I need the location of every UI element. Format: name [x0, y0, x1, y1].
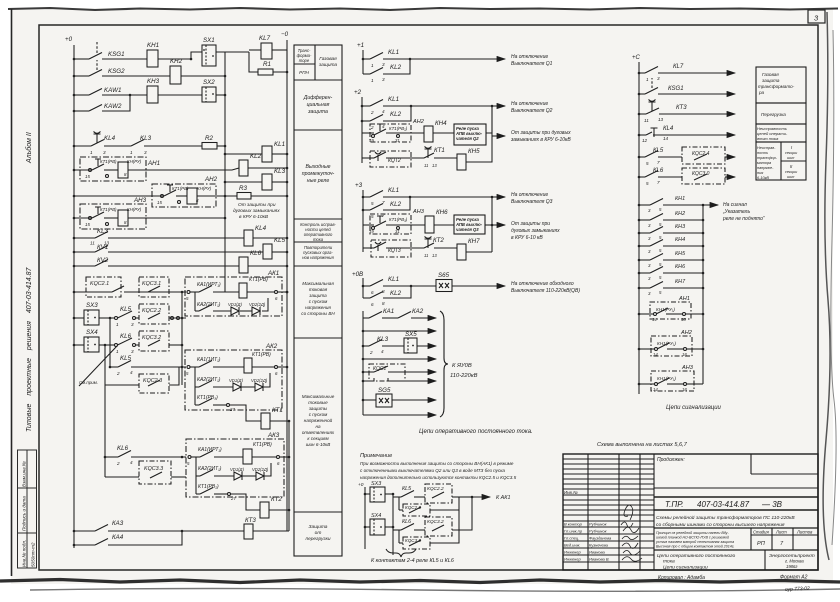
wire KT3 row [639, 113, 646, 115]
relay coil KH5 [457, 154, 466, 170]
svg-text:Альбом II: Альбом II [25, 132, 33, 164]
junction [129, 94, 132, 97]
svg-text:3: 3 [131, 322, 134, 327]
wire KL1 row1 [363, 58, 370, 60]
svg-text:S65: S65 [438, 272, 450, 279]
relay coil KL6 [239, 257, 248, 273]
test block SX4 [84, 337, 99, 352]
svg-text:РПН: РПН [299, 70, 309, 75]
svg-text:KQC3.2: KQC3.2 [142, 335, 161, 341]
contact KH2 [650, 214, 663, 221]
svg-text:КТ1(РВ): КТ1(РВ) [100, 207, 117, 212]
block AN2 dash-dot [152, 184, 216, 207]
coil KN(PU) in AN1 [118, 162, 128, 178]
svg-text:KL2: KL2 [390, 111, 402, 118]
relay coil KT3 [244, 524, 253, 539]
svg-text:1: 1 [646, 77, 649, 82]
contact KL2 5-7 [370, 204, 383, 211]
svg-text:KL2: KL2 [390, 201, 402, 208]
svg-text:KQC2.2: KQC2.2 [142, 308, 161, 314]
svg-text:На отключение обходного: На отключение обходного [511, 281, 574, 287]
svg-text:SХ5: SХ5 [405, 331, 417, 338]
AK2 row2 wire [195, 386, 199, 388]
svg-text:нов напряжения: нов напряжения [302, 255, 334, 260]
AK1 row2 wire [195, 310, 199, 312]
svg-text:Взам.инв.№: Взам.инв.№ [22, 461, 27, 487]
test block SX3 [84, 310, 99, 325]
circles out row318 [171, 317, 174, 320]
left table verticals [587, 454, 589, 570]
contact KT3 t [649, 100, 656, 112]
svg-text:от: от [315, 531, 322, 536]
contact KL2 1-3 [370, 68, 383, 75]
wire KT1 to KH5 [434, 158, 457, 162]
scan bottom edge [0, 580, 840, 583]
contact KQC3.2 [148, 340, 160, 346]
svg-text:Дифферен-: Дифферен- [303, 95, 333, 101]
svg-text:устыв назовем матрой селект: устыв назовем матрой селективная защита [655, 540, 734, 544]
svg-text:См.прим.: См.прим. [79, 380, 98, 385]
wire KT2 to KH7 [434, 248, 457, 252]
svg-text:KH3: KH3 [147, 78, 160, 85]
AK3 contact KA1(IRT1) [188, 456, 191, 459]
wire KL2 row3 [363, 209, 370, 211]
contact KSG2 [89, 70, 102, 77]
contact KT(PB2) in AN2 [161, 195, 164, 198]
svg-text:4: 4 [381, 349, 384, 354]
svg-text:+2: +2 [354, 89, 362, 96]
svg-text:КА1: КА1 [383, 308, 394, 315]
block KQT2 dash-dot [370, 151, 411, 167]
svg-text:КТ2: КТ2 [433, 237, 444, 244]
coil KN(PU) in AN3 [118, 210, 128, 226]
svg-text:SX4: SX4 [86, 329, 98, 336]
wire SX4 note [365, 526, 370, 528]
svg-text:KSG2: KSG2 [108, 68, 125, 75]
wire KT3 out [253, 530, 289, 532]
svg-text:КL5: КL5 [653, 148, 664, 154]
svg-text:11: 11 [644, 118, 649, 123]
svg-text:с пуском: с пуском [309, 412, 328, 417]
svg-text:КН5: КН5 [468, 148, 480, 155]
svg-text:шин 6-10кВ: шин 6-10кВ [306, 442, 331, 447]
svg-text:KL2: KL2 [250, 153, 262, 160]
AK2 row1 wire [190, 366, 199, 368]
wire KL3 coil [225, 181, 262, 183]
wire row AN2 [74, 195, 164, 197]
caption box mtz1 [294, 337, 342, 339]
svg-text:18: 18 [681, 317, 686, 322]
svg-text:SX3: SX3 [86, 302, 98, 309]
svg-text:реле не поднято“: реле не поднято“ [722, 216, 765, 222]
contact KT(PB) in AN3 [89, 217, 92, 220]
contact KQC2.1 [112, 286, 124, 292]
svg-text:КТ1(РВ): КТ1(РВ) [100, 159, 117, 164]
svg-text:3: 3 [382, 77, 385, 82]
wire KH4 row [639, 245, 650, 247]
svg-text:АН2: АН2 [412, 119, 425, 125]
caption box fault op [756, 124, 806, 142]
wire row KQC3.3 [105, 476, 139, 478]
svg-text:с отключенными выключателями: с отключенными выключателями Q2 или Q3 в… [360, 468, 505, 473]
svg-text:12: 12 [642, 138, 648, 143]
svg-text:РП: РП [757, 541, 766, 547]
svg-text:КQС3.2: КQС3.2 [427, 519, 444, 525]
wire KQC3.0 out [725, 176, 735, 178]
brace bottom contacts [386, 549, 416, 557]
svg-text:КН6: КН6 [436, 209, 448, 216]
svg-text:2: 2 [369, 350, 373, 355]
diode VD1 [234, 472, 242, 480]
caption box repeaters [294, 265, 342, 267]
svg-text:КТ1(РВ): КТ1(РВ) [172, 186, 189, 191]
svg-text:Формат А2: Формат А2 [780, 575, 808, 581]
svg-text:КА2: КА2 [412, 308, 424, 315]
svg-text:со стороны ВН: со стороны ВН [301, 311, 335, 316]
wire S65 out arrow [452, 285, 505, 287]
vertical collector wire [224, 52, 226, 292]
contact KH3 [650, 227, 663, 234]
svg-text:На сигнал: На сигнал [723, 202, 747, 208]
note arrow see note [79, 346, 117, 386]
svg-text:дуговых замыканиях: дуговых замыканиях [511, 228, 560, 234]
contact KQC3.3 [150, 472, 162, 478]
svg-text:7: 7 [382, 213, 385, 218]
contact KT1(PB3) [372, 227, 375, 230]
svg-text:АН3: АН3 [681, 365, 694, 371]
svg-text:14: 14 [663, 136, 669, 141]
svg-text:Защита: Защита [309, 524, 328, 530]
node -0 bus [286, 40, 288, 531]
wire to KT1 coil [230, 405, 262, 421]
svg-text:Копировал : Адамба: Копировал : Адамба [658, 575, 705, 581]
wire KH5 out [466, 160, 492, 162]
caption box VT fault [756, 142, 806, 180]
svg-text:В контор: В контор [564, 522, 583, 527]
svg-text:407-03-414.87: 407-03-414.87 [697, 500, 750, 509]
test block SX2 [202, 87, 216, 102]
wire KH3 row [639, 232, 650, 234]
svg-text:5: 5 [646, 161, 649, 166]
svg-text:Цепи сигнализации: Цепи сигнализации [666, 405, 722, 411]
svg-text:18: 18 [682, 352, 687, 357]
svg-text:13: 13 [658, 117, 664, 122]
contact KT(PB1) in AN1 [89, 169, 92, 172]
svg-text:КН2: КН2 [675, 211, 685, 217]
svg-text:Высочая про с общим компактом: Высочая про с общим компактом этой 2014г… [656, 545, 735, 549]
svg-text:Выключателя 110-220кВ(QВ): Выключателя 110-220кВ(QВ) [511, 288, 580, 294]
svg-text:Лист: Лист [775, 530, 787, 535]
svg-text:KH1: KH1 [147, 42, 159, 49]
block AN3 sig dash-dot [651, 371, 694, 391]
svg-text:13: 13 [432, 163, 437, 168]
svg-text:SX2: SX2 [203, 79, 215, 86]
wire KL1 row2 [362, 105, 370, 107]
block KQT3 dash-dot [371, 240, 411, 257]
svg-text:Максимальная: Максимальная [302, 281, 334, 286]
contact KSG1 [89, 53, 102, 60]
AK3 row3 contact KT1(PB2) [196, 493, 200, 495]
diode VD1 [231, 307, 239, 315]
svg-text:VD1(Д): VD1(Д) [228, 302, 242, 307]
svg-text:Инв.№: Инв.№ [564, 490, 578, 495]
svg-text:Газовая: Газовая [762, 72, 779, 77]
svg-text:3: 3 [144, 150, 147, 155]
wire row KA4 [74, 544, 95, 546]
fuse S65 [436, 280, 452, 292]
svg-text:KL1: KL1 [388, 49, 399, 56]
contact KV1 [95, 246, 108, 253]
contact KQC2.2 [148, 313, 160, 319]
resistor R3 [237, 193, 251, 200]
wire row KQC2.3 [105, 384, 139, 386]
svg-text:АН2: АН2 [204, 176, 218, 183]
svg-text:с пуском: с пуском [309, 299, 328, 304]
svg-text:в КРУ 6-10кВ: в КРУ 6-10кВ [239, 214, 269, 220]
wire AN1 sig row [639, 313, 653, 315]
svg-text:3: 3 [657, 76, 660, 81]
svg-text:Стадия: Стадия [753, 530, 769, 535]
svg-text:ные реле: ные реле [307, 178, 330, 184]
svg-text:На отключение: На отключение [511, 54, 548, 60]
block KQC2.3 dash-dot [139, 374, 169, 393]
svg-text:8: 8 [382, 289, 385, 294]
svg-text:KH2: KH2 [170, 58, 183, 65]
svg-text:КТ1(РВ): КТ1(РВ) [253, 442, 272, 448]
svg-text:шевой планкой НО-ВСПО-ПУВ с: шевой планкой НО-ВСПО-ПУВ с решаемой [656, 536, 729, 540]
svg-text:матора: матора [757, 161, 771, 165]
wire row KL4/KL3 [74, 145, 91, 147]
svg-text:1: 1 [371, 63, 374, 68]
contact KQC3.0 [694, 174, 707, 180]
svg-text:КТ1(РВ₂): КТ1(РВ₂) [389, 126, 408, 131]
relay coil KL2 out [239, 160, 248, 176]
svg-text:R3: R3 [239, 185, 247, 192]
svg-text:тока: тока [313, 237, 324, 242]
svg-text:защита: защита [318, 63, 338, 68]
svg-text:КQС3.5: КQС3.5 [405, 538, 421, 543]
vertical junction x110 [109, 318, 111, 367]
svg-text:KL6: KL6 [117, 445, 129, 452]
svg-text:7: 7 [382, 200, 385, 205]
wire KL1 row3 [363, 196, 370, 198]
svg-text:КН(РУ): КН(РУ) [197, 186, 212, 191]
block KQC3.3 dash-dot [139, 461, 171, 484]
contact KL5 1-3 [115, 317, 118, 320]
wire KL7 row [639, 72, 645, 74]
svg-text:токовая: токовая [309, 287, 328, 292]
relay coil KH4 [424, 126, 433, 142]
contact KL5 sig [645, 151, 658, 158]
diode VD2 [252, 307, 260, 315]
svg-text:вного тока: вного тока [757, 136, 779, 141]
wire KQT3 row [363, 247, 374, 249]
wire row KQC2.1 [74, 291, 112, 293]
svg-text:Рубчинок: Рубчинок [589, 529, 608, 534]
block KQC3.2 dash-dot [139, 331, 169, 351]
svg-text:защита: защита [308, 293, 327, 298]
svg-text:КТ1: КТ1 [434, 147, 445, 154]
svg-text:5: 5 [371, 214, 374, 219]
svg-text:4: 4 [130, 370, 133, 375]
wire row SX3/KL5 [74, 317, 84, 319]
svg-text:КН6: КН6 [675, 264, 685, 270]
svg-text:АН3: АН3 [133, 197, 147, 204]
contact KL6 1-3 [115, 344, 118, 347]
node +2 bus [361, 97, 363, 163]
svg-text:КQС2.5: КQС2.5 [405, 505, 421, 510]
AK3 row1 wire [191, 456, 200, 458]
svg-text:К ЯУ0В: К ЯУ0В [452, 363, 472, 369]
AK2 coil KT1(PB) [244, 358, 252, 373]
svg-text:VD2(2Д): VD2(2Д) [251, 378, 268, 383]
svg-text:KL5: KL5 [274, 237, 286, 244]
wire KH6 to APV box [434, 224, 454, 226]
svg-text:KL4: KL4 [255, 225, 267, 232]
block AN3 dash-dot [80, 204, 146, 229]
wire row KA3 [74, 530, 95, 532]
svg-text:КQС2.2: КQС2.2 [427, 486, 444, 492]
relay coil KH7 [457, 244, 466, 260]
svg-text:Выключателя Q2: Выключателя Q2 [511, 108, 553, 114]
svg-text:SХ3: SХ3 [371, 481, 381, 487]
left table rows upper [563, 458, 654, 460]
node +C bus [638, 62, 640, 394]
svg-text:−0: −0 [281, 31, 289, 38]
relay coil KH1 [147, 50, 158, 67]
signature scribbles [621, 505, 642, 561]
wire KH2 row [639, 219, 650, 221]
diode VD2 [256, 472, 264, 480]
svg-text:Перегрузка: Перегрузка [761, 112, 786, 117]
svg-text:КТ1(РВ₂): КТ1(РВ₂) [198, 484, 219, 490]
svg-text:КТ3: КТ3 [245, 517, 256, 524]
svg-text:КН(РУ): КН(РУ) [127, 207, 142, 212]
LEFT MARGIN STRIP [18, 450, 37, 568]
svg-text:15: 15 [157, 200, 162, 205]
wire KH7 out [466, 251, 492, 253]
block AN2 dash-dot mid [370, 124, 411, 142]
contact KH7 [650, 282, 663, 289]
wire KL2 row 6-8 [363, 297, 370, 299]
caption box overload [756, 103, 806, 124]
contact KL1 5-7 [370, 191, 383, 198]
svg-text:7: 7 [657, 180, 660, 185]
wire row SX4/KL6 [74, 344, 84, 346]
caption column frame [294, 45, 342, 556]
relay coil KL1 out [262, 146, 272, 162]
svg-text:+С: +С [632, 55, 641, 61]
svg-text:перегрузки: перегрузки [305, 537, 330, 542]
svg-text:КН7: КН7 [675, 279, 686, 285]
svg-text:На отключение: На отключение [511, 101, 548, 107]
right rail signal [702, 205, 704, 384]
AK1 coil KT1(PB) [239, 283, 247, 298]
svg-text:К контактам 2-4 реле КL5 и КL6: К контактам 2-4 реле КL5 и КL6 [371, 558, 454, 564]
svg-text:KAW1: KAW1 [104, 87, 121, 94]
svg-text:Иванова: Иванова [589, 550, 606, 555]
wire KL2 row2 [362, 120, 370, 122]
svg-text:SX1: SX1 [203, 37, 215, 44]
wire SX2 out [216, 94, 225, 96]
svg-text:Примечание: Примечание [360, 453, 392, 459]
block AK1 dash-dot [185, 277, 282, 316]
test block SX5 [404, 338, 417, 353]
wire APV3 out [485, 224, 492, 226]
svg-text:КТ2: КТ2 [271, 496, 282, 503]
svg-text:Продолжен:: Продолжен: [657, 457, 685, 463]
vertical rail note [392, 494, 394, 555]
relay coil KT1 [261, 413, 270, 429]
svg-text:1: 1 [130, 150, 133, 155]
svg-text:дуговых замыканиях: дуговых замыканиях [233, 208, 280, 214]
contact KT1(PB2) [372, 135, 375, 138]
parallel branch KL7/R1 [249, 52, 258, 72]
svg-text:5050пт-т2: 5050пт-т2 [31, 542, 36, 567]
wire KQC2.5 out [430, 497, 459, 510]
caption box mtz2 [294, 511, 342, 513]
sheet number box 3 [808, 10, 825, 23]
svg-text:КV2: КV2 [97, 257, 109, 264]
contact KL3 [95, 232, 108, 239]
contact KL6 sig [645, 171, 658, 178]
box rele puska APV Q3 [454, 215, 485, 234]
block AK2 dash-dot [185, 350, 282, 410]
contact KSG1 sig [645, 88, 658, 95]
contact KT1 t [425, 147, 432, 159]
svg-text:6: 6 [371, 290, 374, 295]
svg-text:торе: торе [299, 58, 310, 63]
svg-text:KL3: KL3 [274, 168, 286, 175]
AK1 contact KA2(2IT1) [199, 305, 212, 312]
svg-text:КL5: КL5 [402, 486, 412, 492]
wire KL4 row [639, 134, 646, 136]
contact KH4 [650, 240, 663, 247]
svg-text:КV1: КV1 [97, 244, 108, 251]
svg-text:KQC2.3: KQC2.3 [143, 378, 162, 384]
contact KQT2 lamp [375, 152, 381, 161]
svg-text:АК2: АК2 [265, 343, 278, 350]
left rail for arrow rows [362, 311, 364, 415]
contact KL6 2-4 [118, 451, 131, 458]
svg-text:При возможности выполнения: При возможности выполнения защиты со сто… [360, 461, 514, 466]
svg-text:На отключение: На отключение [511, 192, 548, 198]
wire row KSG2 [74, 75, 89, 77]
block AN1 dash-dot [80, 157, 146, 181]
svg-text:трансфор-: трансфор- [757, 156, 778, 160]
svg-text:Инв.№ подл.: Инв.№ подл. [22, 540, 27, 567]
wire row KV2 [74, 265, 95, 267]
AK2 contact KA2(2IT1) [199, 381, 212, 388]
svg-text:4: 4 [382, 109, 385, 114]
svg-text:КН1(РУ₁): КН1(РУ₁) [657, 341, 676, 346]
svg-text:КА4: КА4 [112, 534, 124, 541]
svg-text:напряжения дополнительно исп: напряжения дополнительно используются ко… [360, 475, 517, 480]
contact KL3 2-4 [369, 340, 382, 347]
right head cell divider [750, 454, 752, 474]
svg-text:KQC3.3: KQC3.3 [144, 466, 163, 472]
contact KL5 2-4 [118, 361, 131, 368]
svg-text:6-10кВ: 6-10кВ [757, 176, 769, 180]
svg-text:От защиты при: От защиты при [238, 202, 276, 208]
svg-text:KL3: KL3 [377, 336, 389, 343]
svg-text:КSG1: КSG1 [668, 86, 684, 92]
svg-text:14: 14 [653, 352, 658, 357]
wire KSG1 row [639, 93, 645, 95]
svg-text:КQС1: КQС1 [373, 366, 386, 372]
svg-text:VD2(2Д): VD2(2Д) [249, 302, 266, 307]
svg-text:КА3: КА3 [112, 520, 124, 527]
